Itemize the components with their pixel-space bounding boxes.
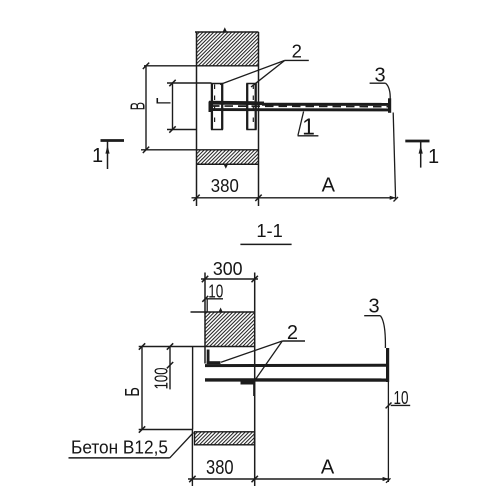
concrete fill strip (hatched) below niche xyxy=(195,432,255,445)
anchor plate pos.2 seat on top flange (section) xyxy=(207,361,221,364)
svg-text:3: 3 xyxy=(368,295,379,317)
beam pos.1 (plan): dash-dot axis line xyxy=(211,105,388,108)
wall section: hatched block above niche xyxy=(205,312,255,347)
extension line from end plate down to dimension А xyxy=(387,382,389,482)
extension line: niche top / block bottom edge xyxy=(139,346,255,348)
svg-text:1-1: 1-1 xyxy=(256,220,282,241)
extension line: wall face down to dimension 380 xyxy=(191,430,193,487)
beam pos.1 (plan): embedded end cap xyxy=(209,102,212,113)
wall plan: upper break mark xyxy=(223,27,227,32)
wall section: outer face at niche level xyxy=(192,347,194,430)
beam pos.1 (section): top flange line xyxy=(205,364,388,367)
svg-text:1: 1 xyxy=(428,146,439,168)
svg-text:А: А xyxy=(321,457,335,479)
svg-text:380: 380 xyxy=(206,457,234,479)
wall plan: lower hatched cut block xyxy=(197,150,259,164)
extension lines for dimension Г xyxy=(167,82,212,84)
anchor plate pos.2 upstand at embedded beam end (section) xyxy=(207,350,210,365)
wall plan: right face line xyxy=(258,32,260,206)
svg-text:Бетон В12,5: Бетон В12,5 xyxy=(71,437,168,458)
extension line: top of dimension В / upper block bottom edge xyxy=(144,65,259,67)
dimension 10 end-plate: underline and tick xyxy=(391,404,411,406)
svg-text:1: 1 xyxy=(302,114,315,140)
leader for label 1 (plan) xyxy=(298,135,319,137)
end plate pos.3 (plan) xyxy=(388,98,391,113)
svg-text:300: 300 xyxy=(213,258,243,279)
svg-text:А: А xyxy=(322,175,336,197)
leader for label 2 (section) xyxy=(282,340,305,342)
section mark 1 right: cut bar, stem and view arrow xyxy=(405,140,429,143)
dimension 10 gap: underline and tick xyxy=(205,298,224,300)
dimension line 100 with tick marks xyxy=(169,347,171,390)
svg-text:2: 2 xyxy=(292,40,302,61)
leader for concrete note xyxy=(69,457,170,459)
extension line / wall outer face right (section) xyxy=(254,273,256,487)
beam pos.1 (plan): bottom flange edge xyxy=(209,108,390,111)
svg-text:Г: Г xyxy=(154,98,176,105)
dimension line 380 + А (section) with tick marks xyxy=(188,478,389,480)
leader for label 3 (section) xyxy=(364,315,380,317)
dimension line Б with tick marks xyxy=(141,347,143,430)
svg-text:1: 1 xyxy=(92,145,103,167)
dimension line 380 + А (plan) with tick marks xyxy=(192,197,397,199)
end plate pos.3 (section) xyxy=(386,348,389,382)
wall section: break mark on top edge xyxy=(219,308,223,313)
beam pos.1 (section): bottom flange line xyxy=(205,378,388,382)
leader for label 2 (plan) xyxy=(285,59,309,61)
wall plan: left face line xyxy=(196,32,198,206)
wall plan: upper hatched cut block xyxy=(197,32,259,66)
anchor plate pos.2 outer (plan) xyxy=(246,84,248,130)
svg-text:380: 380 xyxy=(211,175,239,196)
leader for label 3 (plan) xyxy=(370,82,386,84)
svg-text:Б: Б xyxy=(121,387,144,397)
beam pos.1 (plan): top flange edge with dash-dot axis xyxy=(209,101,264,105)
section mark 1 left: cut bar, stem and view arrow xyxy=(101,139,125,142)
extension line from beam free end (plan) xyxy=(393,113,395,200)
svg-text:3: 3 xyxy=(374,65,385,87)
svg-text:10: 10 xyxy=(394,387,409,408)
dimension line 300 with tick marks xyxy=(201,278,258,280)
svg-text:2: 2 xyxy=(287,322,298,344)
dimension line В with tick marks xyxy=(145,66,147,150)
extension line: niche bottom (Б) xyxy=(139,429,193,431)
svg-text:100: 100 xyxy=(150,367,171,389)
wall plan: lower break mark xyxy=(224,164,228,169)
wall section: top break edge xyxy=(191,311,255,313)
dimension line Г with tick marks xyxy=(172,83,174,130)
anchor plate pos.2 under bottom flange at wall face (section) xyxy=(241,381,255,384)
anchor plate pos.2 inner (plan) xyxy=(211,84,213,130)
extension line: recessed wall face (section) xyxy=(204,273,206,364)
svg-text:10: 10 xyxy=(208,281,223,302)
svg-text:В: В xyxy=(128,102,150,110)
extension line: bottom of dimension В / lower block top edge xyxy=(141,149,259,151)
